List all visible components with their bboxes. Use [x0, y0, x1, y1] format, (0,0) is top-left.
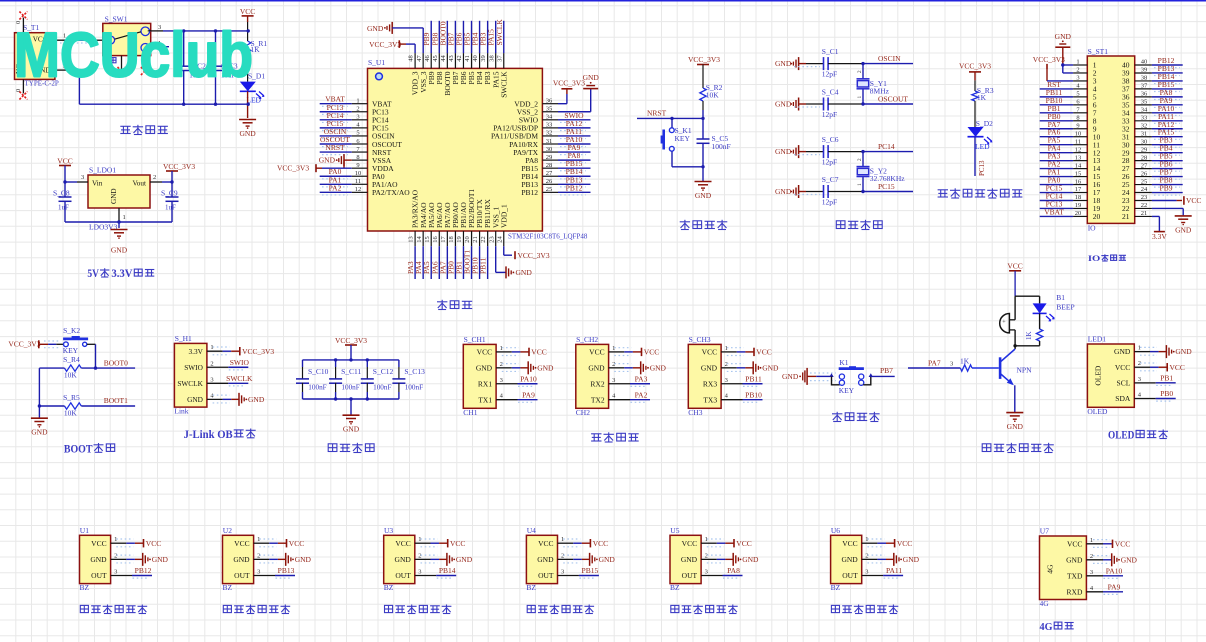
svg-text:GND: GND: [343, 425, 360, 434]
svg-text:MCUclub: MCUclub: [14, 21, 253, 91]
svg-text:PB12: PB12: [135, 566, 152, 575]
svg-text:GND: GND: [90, 555, 107, 564]
svg-text:1K: 1K: [1025, 331, 1033, 340]
svg-text:GND: GND: [295, 555, 312, 564]
svg-text:VCC: VCC: [234, 539, 249, 548]
svg-text:26: 26: [546, 178, 553, 185]
svg-text:VCC: VCC: [593, 539, 608, 548]
svg-text:GND: GND: [695, 191, 712, 200]
svg-text:S_H1: S_H1: [175, 334, 192, 343]
svg-text:10K: 10K: [706, 91, 720, 100]
svg-text:1uF: 1uF: [58, 204, 69, 212]
svg-text:PB12: PB12: [521, 188, 538, 197]
svg-text:GND: GND: [233, 555, 250, 564]
svg-text:33: 33: [1141, 114, 1148, 121]
svg-text:36: 36: [546, 98, 553, 105]
svg-text:PA2: PA2: [329, 183, 342, 192]
svg-text:30: 30: [1141, 138, 1148, 145]
svg-text:28: 28: [546, 162, 553, 169]
svg-text:RX3: RX3: [703, 379, 717, 388]
svg-text:VCC: VCC: [1115, 363, 1130, 372]
svg-text:GND: GND: [742, 555, 759, 564]
svg-text:BZ: BZ: [80, 583, 90, 592]
svg-text:100nF: 100nF: [308, 383, 326, 391]
svg-text:TX2: TX2: [591, 395, 605, 404]
svg-text:3: 3: [705, 569, 708, 576]
svg-text:11: 11: [355, 178, 361, 185]
svg-text:PA10: PA10: [520, 374, 537, 383]
svg-text:VCC: VCC: [289, 539, 304, 548]
svg-text:GND: GND: [367, 24, 384, 33]
svg-text:23: 23: [488, 236, 495, 243]
svg-text:13: 13: [1075, 154, 1082, 161]
svg-text:2: 2: [1138, 360, 1141, 367]
svg-text:2: 2: [210, 360, 213, 367]
svg-text:2: 2: [418, 552, 421, 559]
svg-text:GND: GND: [1055, 32, 1072, 41]
svg-text:1: 1: [356, 98, 359, 105]
svg-text:16: 16: [1075, 178, 1082, 185]
svg-text:PB9: PB9: [1160, 184, 1173, 193]
svg-text:3: 3: [418, 569, 421, 576]
svg-text:1K: 1K: [977, 93, 987, 102]
svg-text:U7: U7: [1040, 527, 1049, 536]
svg-text:VCC: VCC: [1170, 363, 1185, 372]
svg-text:VCC_3V3: VCC_3V3: [277, 164, 309, 173]
svg-text:100nF: 100nF: [712, 142, 731, 151]
svg-text:VCC: VCC: [1186, 196, 1201, 205]
svg-text:3: 3: [356, 114, 359, 121]
svg-text:OUT: OUT: [682, 571, 698, 580]
svg-text:14: 14: [1075, 162, 1082, 169]
svg-text:1: 1: [114, 536, 117, 543]
svg-text:10K: 10K: [64, 409, 78, 418]
svg-text:PA7: PA7: [928, 358, 941, 367]
svg-text:STM32F103C8T6_LQFP48: STM32F103C8T6_LQFP48: [508, 233, 588, 241]
svg-text:10K: 10K: [64, 371, 78, 380]
svg-text:14: 14: [416, 236, 423, 243]
svg-text:VDD_1: VDD_1: [499, 204, 508, 228]
svg-text:43: 43: [448, 55, 455, 62]
svg-text:GND: GND: [319, 156, 336, 165]
svg-text:22: 22: [1141, 202, 1148, 209]
svg-text:S_K2: S_K2: [63, 326, 80, 335]
svg-text:10: 10: [1075, 130, 1082, 137]
svg-text:35: 35: [1141, 99, 1148, 106]
svg-text:5: 5: [1076, 91, 1079, 98]
svg-text:OLED: OLED: [1093, 365, 1102, 386]
svg-text:CH1: CH1: [463, 408, 477, 417]
svg-text:2: 2: [114, 552, 117, 559]
svg-text:U3: U3: [384, 526, 393, 535]
svg-text:1: 1: [612, 345, 615, 352]
svg-text:1: 1: [705, 536, 708, 543]
svg-text:3: 3: [210, 376, 213, 383]
svg-text:2: 2: [865, 552, 868, 559]
svg-text:VCC_3V3: VCC_3V3: [369, 40, 401, 49]
svg-text:GND: GND: [31, 428, 48, 437]
svg-text:24: 24: [1141, 186, 1148, 193]
svg-text:12pF: 12pF: [822, 198, 837, 207]
svg-text:RX1: RX1: [478, 379, 492, 388]
svg-text:S_ST1: S_ST1: [1088, 47, 1109, 56]
svg-text:2: 2: [500, 361, 503, 368]
svg-text:3: 3: [1076, 75, 1079, 82]
svg-text:OUT: OUT: [91, 571, 107, 580]
svg-text:39: 39: [480, 55, 487, 62]
svg-text:GND: GND: [1066, 555, 1083, 564]
svg-text:OSCOUT: OSCOUT: [878, 95, 908, 104]
svg-text:GND: GND: [775, 147, 792, 156]
svg-text:PC13: PC13: [978, 160, 986, 176]
svg-text:OUT: OUT: [234, 571, 250, 580]
svg-text:PB13: PB13: [278, 566, 295, 575]
svg-text:2: 2: [1090, 553, 1093, 560]
svg-text:GND: GND: [1007, 422, 1024, 431]
svg-text:U1: U1: [80, 526, 89, 535]
svg-text:GND: GND: [762, 363, 779, 372]
svg-text:BOOT1: BOOT1: [104, 396, 128, 405]
svg-text:S_CH3: S_CH3: [689, 335, 711, 344]
svg-text:2: 2: [612, 361, 615, 368]
svg-text:S_C11: S_C11: [341, 367, 361, 376]
svg-text:PC15: PC15: [878, 182, 895, 191]
svg-text:S_CH2: S_CH2: [576, 335, 598, 344]
svg-text:PB12: PB12: [566, 183, 583, 192]
svg-text:3: 3: [114, 569, 117, 576]
svg-text:3: 3: [865, 569, 868, 576]
svg-text:1: 1: [1138, 345, 1141, 352]
svg-text:VCC: VCC: [531, 348, 546, 357]
svg-text:OUT: OUT: [842, 571, 858, 580]
svg-text:2: 2: [356, 106, 359, 113]
svg-text:1uF: 1uF: [165, 204, 176, 212]
svg-text:4G: 4G: [1040, 599, 1050, 608]
svg-text:BZ: BZ: [384, 583, 394, 592]
svg-text:TX1: TX1: [478, 395, 492, 404]
svg-text:18: 18: [448, 236, 455, 243]
svg-text:21: 21: [472, 236, 479, 243]
svg-text:2: 2: [857, 158, 863, 161]
svg-text:38: 38: [1141, 75, 1148, 82]
svg-text:GND: GND: [456, 555, 473, 564]
svg-text:GND: GND: [903, 555, 920, 564]
svg-text:GND: GND: [775, 59, 792, 68]
svg-text:BZ: BZ: [223, 583, 233, 592]
svg-text:U2: U2: [223, 526, 232, 535]
svg-text:3.3V: 3.3V: [188, 347, 203, 356]
svg-text:GND: GND: [395, 555, 412, 564]
svg-text:16: 16: [432, 236, 439, 243]
svg-text:S_R5: S_R5: [63, 393, 80, 402]
svg-text:LED: LED: [975, 142, 990, 151]
svg-text:8: 8: [356, 154, 359, 161]
svg-text:S_U1: S_U1: [368, 58, 385, 67]
svg-text:PA9: PA9: [522, 390, 535, 399]
svg-text:19: 19: [456, 236, 463, 243]
svg-text:3: 3: [612, 377, 615, 384]
svg-text:S_C1: S_C1: [822, 47, 839, 56]
svg-text:SWCLK: SWCLK: [226, 374, 253, 383]
svg-text:29: 29: [1141, 146, 1148, 153]
svg-text:5V: 5V: [87, 268, 99, 280]
svg-text:21: 21: [1122, 212, 1130, 221]
svg-text:1: 1: [561, 536, 564, 543]
svg-text:15: 15: [424, 236, 431, 243]
svg-text:3: 3: [81, 174, 84, 181]
svg-text:S_C4: S_C4: [822, 88, 839, 97]
svg-text:4G: 4G: [1040, 621, 1053, 633]
svg-text:47: 47: [416, 55, 423, 62]
svg-text:GND: GND: [1114, 347, 1131, 356]
svg-text:VCC: VCC: [644, 348, 659, 357]
svg-text:OUT: OUT: [538, 571, 554, 580]
svg-text:22: 22: [480, 236, 487, 243]
svg-text:GND: GND: [681, 555, 698, 564]
svg-text:J-Link OB: J-Link OB: [184, 427, 233, 441]
svg-text:KEY: KEY: [839, 386, 855, 395]
svg-text:S_LDO1: S_LDO1: [89, 166, 116, 175]
svg-text:38: 38: [488, 55, 495, 62]
svg-text:U5: U5: [670, 526, 679, 535]
svg-text:RX2: RX2: [590, 379, 604, 388]
svg-text:13: 13: [408, 236, 415, 243]
svg-text:36: 36: [1141, 91, 1148, 98]
svg-text:35: 35: [546, 106, 553, 113]
svg-text:VCC: VCC: [146, 539, 161, 548]
svg-text:2: 2: [561, 552, 564, 559]
svg-text:LED1: LED1: [1088, 335, 1107, 344]
svg-text:PA9: PA9: [1108, 583, 1121, 592]
svg-text:PB7: PB7: [880, 366, 893, 375]
svg-text:SWCLK: SWCLK: [499, 71, 508, 98]
svg-text:3: 3: [950, 360, 953, 367]
svg-text:SWCLK: SWCLK: [177, 379, 203, 388]
svg-text:27: 27: [1141, 162, 1148, 169]
svg-text:S_CH1: S_CH1: [464, 335, 486, 344]
svg-text:2: 2: [1076, 67, 1079, 74]
svg-text:1: 1: [257, 536, 260, 543]
svg-text:25: 25: [1141, 178, 1148, 185]
svg-text:OLED: OLED: [1087, 407, 1108, 416]
svg-text:GND: GND: [701, 363, 718, 372]
svg-text:1: 1: [500, 345, 503, 352]
svg-text:29: 29: [546, 154, 553, 161]
svg-text:CH3: CH3: [688, 408, 702, 417]
svg-text:SWIO: SWIO: [184, 363, 203, 372]
svg-text:3: 3: [500, 377, 503, 384]
svg-text:IO: IO: [1088, 224, 1096, 233]
svg-text:19: 19: [1075, 202, 1082, 209]
svg-text:VCC: VCC: [57, 157, 72, 166]
svg-text:U4: U4: [527, 526, 536, 535]
svg-text:Vout: Vout: [133, 180, 146, 188]
svg-text:GND: GND: [782, 372, 799, 381]
svg-text:24: 24: [496, 236, 503, 243]
svg-text:PA2/TX/AO: PA2/TX/AO: [372, 188, 410, 197]
svg-text:VCC_3V3: VCC_3V3: [163, 162, 195, 171]
svg-text:VCC: VCC: [842, 539, 857, 548]
svg-text:K1: K1: [839, 358, 848, 367]
svg-text:VCC_3V3: VCC_3V3: [518, 251, 550, 260]
svg-text:20: 20: [1093, 212, 1101, 221]
svg-text:34: 34: [1141, 107, 1148, 114]
svg-text:PA8: PA8: [727, 566, 740, 575]
svg-text:32: 32: [546, 130, 553, 137]
svg-text:1: 1: [857, 183, 863, 186]
svg-text:GND: GND: [1175, 347, 1192, 356]
svg-text:VCC_3V3: VCC_3V3: [553, 79, 585, 88]
svg-text:33: 33: [546, 122, 553, 129]
svg-text:GND: GND: [775, 187, 792, 196]
svg-text:PB14: PB14: [439, 566, 456, 575]
svg-text:TXD: TXD: [1067, 571, 1083, 580]
svg-text:32: 32: [1141, 122, 1148, 129]
svg-text:GND: GND: [476, 363, 493, 372]
svg-text:PB0: PB0: [1160, 389, 1173, 398]
svg-text:GND: GND: [775, 100, 792, 109]
svg-text:GND: GND: [588, 363, 605, 372]
svg-text:GND: GND: [841, 555, 858, 564]
svg-text:9: 9: [1076, 122, 1079, 129]
svg-text:45: 45: [432, 55, 439, 62]
svg-text:OLED: OLED: [1108, 430, 1134, 442]
svg-text:3: 3: [725, 377, 728, 384]
svg-text:48: 48: [408, 55, 415, 62]
svg-text:GND: GND: [583, 73, 600, 82]
svg-text:3.3V: 3.3V: [1152, 232, 1167, 241]
svg-text:VCC: VCC: [736, 539, 751, 548]
svg-text:SDA: SDA: [1115, 394, 1131, 403]
svg-text:VCC_3V3: VCC_3V3: [959, 62, 991, 71]
svg-text:12pF: 12pF: [822, 158, 837, 167]
svg-text:1: 1: [210, 344, 213, 351]
svg-text:VCC_3V3: VCC_3V3: [242, 347, 274, 356]
svg-text:40: 40: [472, 55, 479, 62]
svg-text:32.768KHz: 32.768KHz: [870, 174, 905, 183]
svg-text:18: 18: [1075, 194, 1082, 201]
svg-text:VCC_3V3: VCC_3V3: [8, 339, 40, 348]
svg-text:27: 27: [546, 170, 553, 177]
svg-text:1: 1: [725, 345, 728, 352]
svg-text:10: 10: [355, 170, 362, 177]
svg-text:20: 20: [464, 236, 471, 243]
svg-text:PB11: PB11: [479, 257, 488, 274]
svg-text:VCC: VCC: [450, 539, 465, 548]
svg-text:1: 1: [123, 214, 126, 221]
svg-text:KEY: KEY: [675, 134, 691, 143]
svg-text:9: 9: [356, 162, 359, 169]
svg-text:PB1: PB1: [1160, 374, 1173, 383]
svg-text:1: 1: [1076, 59, 1079, 66]
svg-text:3: 3: [257, 569, 260, 576]
svg-text:2: 2: [725, 361, 728, 368]
svg-text:VCC: VCC: [538, 539, 553, 548]
svg-text:GND: GND: [248, 395, 265, 404]
svg-text:S_C7: S_C7: [822, 175, 839, 184]
svg-text:S_R4: S_R4: [63, 355, 80, 364]
svg-text:PA2: PA2: [635, 390, 648, 399]
svg-text:VCC: VCC: [1115, 539, 1130, 548]
svg-text:VCC: VCC: [395, 539, 410, 548]
svg-text:GND: GND: [111, 246, 128, 255]
svg-text:GND: GND: [650, 363, 667, 372]
svg-text:PB11: PB11: [745, 374, 762, 383]
svg-text:46: 46: [424, 55, 431, 62]
svg-text:BOOT0: BOOT0: [104, 358, 128, 367]
svg-text:1: 1: [865, 536, 868, 543]
svg-text:SCL: SCL: [1117, 378, 1131, 387]
svg-text:BZ: BZ: [670, 583, 680, 592]
svg-text:PA3: PA3: [635, 374, 648, 383]
svg-text:30: 30: [546, 146, 553, 153]
svg-text:1: 1: [1090, 537, 1093, 544]
svg-text:41: 41: [464, 55, 471, 62]
svg-text:NRST: NRST: [647, 109, 667, 118]
svg-text:25: 25: [546, 186, 553, 193]
svg-text:40: 40: [1141, 59, 1148, 66]
svg-text:20: 20: [1075, 210, 1082, 217]
svg-text:23: 23: [1141, 194, 1148, 201]
svg-text:GND: GND: [1121, 555, 1138, 564]
svg-text:15: 15: [1075, 170, 1082, 177]
svg-text:37: 37: [1141, 83, 1148, 90]
svg-text:4G: 4G: [1046, 564, 1055, 574]
svg-text:VCC: VCC: [702, 348, 717, 357]
svg-text:12pF: 12pF: [822, 110, 837, 119]
svg-text:8MHz: 8MHz: [870, 86, 890, 95]
svg-text:S_C12: S_C12: [373, 367, 394, 376]
svg-text:3: 3: [1090, 569, 1093, 576]
svg-text:44: 44: [440, 55, 447, 62]
svg-text:VCC: VCC: [589, 348, 604, 357]
svg-text:GND: GND: [110, 188, 118, 204]
svg-text:1: 1: [418, 536, 421, 543]
svg-text:100nF: 100nF: [373, 383, 391, 391]
svg-text:GND: GND: [516, 268, 533, 277]
svg-text:RXD: RXD: [1067, 587, 1083, 596]
svg-text:1: 1: [857, 96, 863, 99]
svg-text:39: 39: [1141, 67, 1148, 74]
svg-text:37: 37: [496, 55, 503, 62]
svg-text:GND: GND: [152, 555, 169, 564]
svg-text:GND: GND: [599, 555, 616, 564]
svg-text:VCC: VCC: [897, 539, 912, 548]
svg-text:NRST: NRST: [325, 143, 345, 152]
svg-text:PA10: PA10: [1106, 567, 1123, 576]
svg-text:21: 21: [1141, 210, 1148, 217]
svg-text:BOOT: BOOT: [64, 441, 93, 455]
svg-text:Link: Link: [174, 407, 188, 416]
svg-text:CH2: CH2: [576, 408, 590, 417]
svg-text:S_D2: S_D2: [976, 119, 993, 128]
svg-text:BZ: BZ: [526, 583, 536, 592]
svg-text:2: 2: [705, 552, 708, 559]
svg-text:KEY: KEY: [63, 346, 79, 355]
svg-text:S_C8: S_C8: [53, 189, 70, 198]
svg-text:12: 12: [355, 186, 362, 193]
svg-text:VCC: VCC: [91, 539, 106, 548]
svg-text:34: 34: [546, 114, 553, 121]
svg-text:TX3: TX3: [703, 395, 717, 404]
svg-text:3: 3: [561, 569, 564, 576]
svg-text:12: 12: [1075, 146, 1082, 153]
svg-text:17: 17: [1075, 186, 1082, 193]
svg-text:OSCIN: OSCIN: [878, 54, 901, 63]
svg-text:U6: U6: [831, 526, 840, 535]
svg-text:VCC_3V3: VCC_3V3: [688, 55, 720, 64]
svg-text:31: 31: [1141, 130, 1148, 137]
